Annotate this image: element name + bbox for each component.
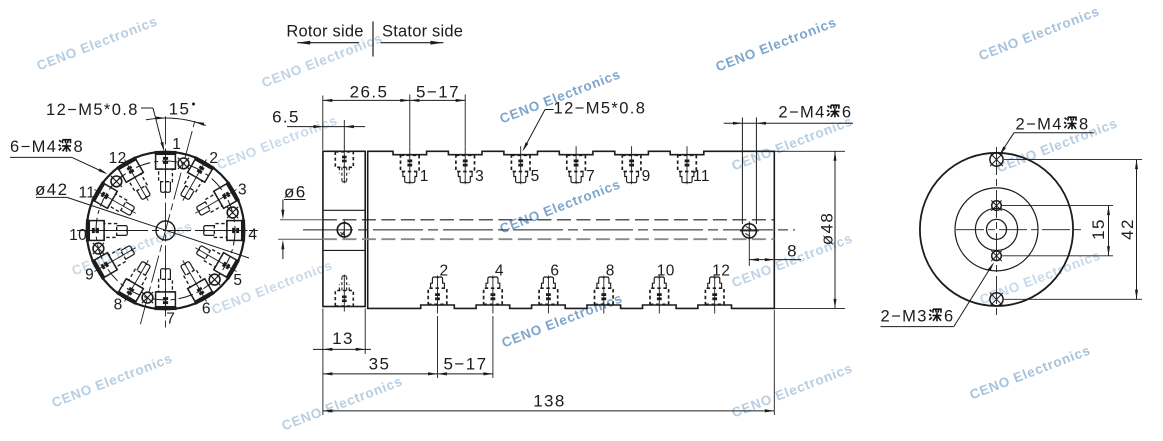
left view outer circle xyxy=(87,152,245,310)
separator line xyxy=(372,22,374,57)
svg-text:7: 7 xyxy=(586,168,595,185)
left view terminal 7 position 7 xyxy=(155,265,177,313)
svg-text:3: 3 xyxy=(475,168,484,185)
middle view terminal 8 xyxy=(595,276,614,314)
svg-text:5: 5 xyxy=(531,168,540,185)
middle view body outline xyxy=(368,151,775,308)
left view M4 screw hole at 255 deg xyxy=(93,243,104,254)
left view M4 screw hole at 15 deg xyxy=(178,158,189,169)
dimension 13 line xyxy=(313,348,371,350)
svg-text:6: 6 xyxy=(842,104,853,122)
svg-text:2: 2 xyxy=(439,263,448,280)
dimension 35 / 5-17 line xyxy=(323,373,493,375)
svg-text:Stator side: Stator side xyxy=(382,23,463,41)
left view terminal 2 position 2 xyxy=(173,154,216,206)
left view leader o42 xyxy=(36,196,67,198)
dimension o48 line xyxy=(834,151,836,308)
right view M3 screw top xyxy=(992,201,1002,211)
svg-text:6: 6 xyxy=(944,308,955,326)
middle view terminal 2 xyxy=(428,276,447,314)
dimension 42 ext lines xyxy=(1004,159,1142,161)
dimension 138 line xyxy=(323,410,774,412)
svg-text:9: 9 xyxy=(85,267,94,284)
right label 2-M3 leader xyxy=(881,326,954,328)
middle view terminal 9 xyxy=(622,146,641,184)
middle view terminal 1 xyxy=(401,146,420,184)
svg-text:8: 8 xyxy=(74,138,85,156)
middle view right M4 hole lines xyxy=(741,118,743,225)
svg-text:8: 8 xyxy=(606,263,615,280)
svg-text:138: 138 xyxy=(533,392,566,411)
middle view bore hidden line bottom xyxy=(323,238,774,240)
right view vertical centerline xyxy=(996,147,998,315)
svg-text:10: 10 xyxy=(657,263,675,280)
left view terminal 12 position 12 xyxy=(115,154,158,206)
svg-text:5−17: 5−17 xyxy=(444,355,488,374)
svg-text:12: 12 xyxy=(712,263,730,280)
middle view terminal 5 xyxy=(511,146,530,184)
svg-text:4: 4 xyxy=(248,226,257,243)
middle leader 12-M5*0.8 xyxy=(545,109,554,111)
left view M4 screw hole at 75 deg xyxy=(227,207,238,218)
svg-text:3: 3 xyxy=(238,181,247,198)
dimension 8 line xyxy=(749,259,801,261)
right view M4 screw top xyxy=(990,153,1003,166)
left view M4 screw hole at 195 deg xyxy=(142,292,153,303)
left view terminal 6 position 6 xyxy=(173,255,216,307)
middle view collar set screw xyxy=(337,223,351,237)
svg-text:6.5: 6.5 xyxy=(272,108,300,127)
svg-text:2−M4: 2−M4 xyxy=(1016,116,1063,134)
middle view collar terminal bottom xyxy=(335,275,353,312)
middle view terminal 6 xyxy=(539,276,558,314)
svg-text:15: 15 xyxy=(169,100,191,119)
right view inner circle xyxy=(975,208,1017,250)
svg-text:12−M5*0.8: 12−M5*0.8 xyxy=(46,101,139,119)
left view M4 screw hole at 315 deg xyxy=(111,176,122,187)
svg-text:1: 1 xyxy=(420,168,429,185)
right view M4 screw bottom xyxy=(990,293,1003,306)
middle view collar upper line xyxy=(323,209,365,211)
dimension o6 arrows xyxy=(282,200,284,217)
dimension 15 ext lines xyxy=(1002,205,1113,207)
left view terminal 1 position 1 xyxy=(155,149,177,197)
right view middle circle xyxy=(955,188,1038,271)
left view leader for 6-M4 label xyxy=(10,156,72,158)
left view terminal 3 position 3 xyxy=(190,180,242,223)
middle view collar lower line xyxy=(323,249,365,251)
dimension 26.5 line xyxy=(323,99,410,101)
left view leader for 12-M5*0.8 xyxy=(141,107,153,109)
svg-text:26.5: 26.5 xyxy=(350,83,389,102)
middle view right M4 screw xyxy=(742,224,756,238)
svg-text:8: 8 xyxy=(114,297,123,314)
middle view terminal 10 xyxy=(650,276,669,314)
extension lines bottom dims xyxy=(322,309,324,416)
left view bolt circle (dash-dot, o42) xyxy=(96,161,235,300)
svg-text:ø42: ø42 xyxy=(35,180,69,199)
middle view terminal 11 xyxy=(678,146,697,184)
middle view collar terminal top xyxy=(335,146,353,183)
dimension 42 line xyxy=(1136,160,1138,300)
svg-text:11: 11 xyxy=(78,185,95,202)
left view terminal 11 position 11 xyxy=(89,180,141,223)
svg-text:ø6: ø6 xyxy=(284,183,307,202)
dimension 5-17 top line xyxy=(410,99,465,101)
left view terminal 8 position 8 xyxy=(115,255,158,307)
extension lines top dims xyxy=(322,96,324,151)
svg-text:5−17: 5−17 xyxy=(416,83,460,102)
right view M3 screw bottom xyxy=(992,251,1002,261)
svg-text:12: 12 xyxy=(109,150,127,167)
dimension 15 line xyxy=(1108,206,1110,256)
right view outer circle xyxy=(920,153,1073,306)
left view 15-degree centerline xyxy=(140,121,195,324)
svg-text:6: 6 xyxy=(202,300,211,317)
middle view terminal 12 xyxy=(705,276,724,314)
middle view terminal 7 xyxy=(567,146,586,184)
left view terminal 10 position 10 xyxy=(84,220,132,242)
left view horizontal centerline xyxy=(77,230,258,232)
svg-text:2−M3: 2−M3 xyxy=(881,308,928,326)
svg-text:4: 4 xyxy=(495,263,504,280)
svg-text:8: 8 xyxy=(1079,116,1090,134)
left view terminal 9 position 9 xyxy=(89,238,141,281)
middle view bore hidden line top xyxy=(323,219,774,221)
right view bore circle xyxy=(987,219,1007,239)
svg-text:8: 8 xyxy=(787,242,798,261)
middle view bore stub lines xyxy=(280,219,323,221)
dimension o6 underline xyxy=(284,199,306,201)
left view center bore circle xyxy=(156,221,175,240)
svg-text:2−M4: 2−M4 xyxy=(778,104,825,122)
rotor side arrow xyxy=(297,42,359,44)
svg-text:6−M4: 6−M4 xyxy=(10,138,57,156)
svg-text:11: 11 xyxy=(693,168,710,185)
svg-text:1: 1 xyxy=(172,136,181,153)
svg-text:2: 2 xyxy=(209,150,218,167)
middle view rotor collar xyxy=(323,151,365,306)
svg-text:35: 35 xyxy=(369,355,391,374)
middle view terminal 4 xyxy=(484,276,503,314)
dimension 8 ext xyxy=(748,239,750,267)
svg-text:15: 15 xyxy=(1089,218,1108,240)
middle view main centerline xyxy=(303,229,795,231)
dimension 6.5 line xyxy=(287,126,365,128)
svg-text:12−M5*0.8: 12−M5*0.8 xyxy=(554,100,647,118)
svg-text:5: 5 xyxy=(233,272,242,289)
left view terminal 5 position 5 xyxy=(190,238,242,281)
right view horizontal centerline xyxy=(956,229,1083,231)
svg-text:10: 10 xyxy=(69,227,87,244)
middle 2-M4 dim line xyxy=(724,122,853,124)
svg-text:7: 7 xyxy=(166,310,175,327)
svg-text:42: 42 xyxy=(1118,218,1137,240)
middle view terminal 3 xyxy=(456,146,475,184)
svg-text:6: 6 xyxy=(550,263,559,280)
left view M4 screw hole at 135 deg xyxy=(209,274,220,285)
left view 15-degree dimension arc xyxy=(146,118,206,125)
stator side arrow xyxy=(381,42,444,44)
svg-text:13: 13 xyxy=(332,329,354,348)
svg-text:Rotor side: Rotor side xyxy=(286,23,363,41)
extension line 6.5 xyxy=(343,120,345,147)
left view vertical centerline xyxy=(165,117,167,330)
svg-text:ø48: ø48 xyxy=(818,212,837,246)
dimension o48 ext lines xyxy=(774,150,845,152)
left view terminal 4 position 4 xyxy=(200,220,248,242)
right label 2-M4 leader xyxy=(1014,132,1094,134)
svg-text:9: 9 xyxy=(642,168,651,185)
